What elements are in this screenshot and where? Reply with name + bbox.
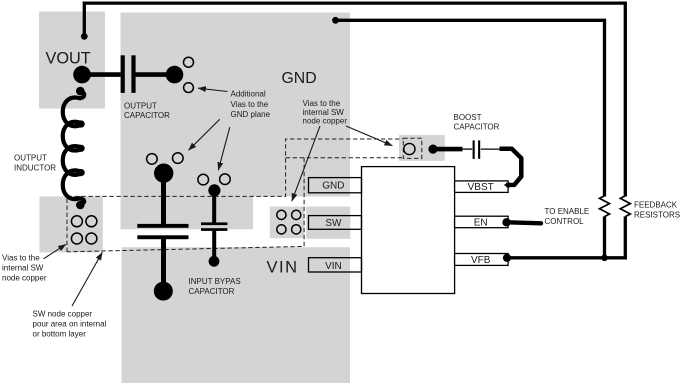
svg-text:or bottom layer: or bottom layer xyxy=(33,330,87,339)
svg-text:GND: GND xyxy=(322,180,344,191)
svg-text:CAPACITOR: CAPACITOR xyxy=(124,111,170,120)
svg-text:RESISTORS: RESISTORS xyxy=(634,211,680,220)
svg-text:node copper: node copper xyxy=(303,117,348,126)
svg-text:VBST: VBST xyxy=(468,182,494,193)
svg-text:SW: SW xyxy=(325,218,342,229)
svg-text:INPUT BYPAS: INPUT BYPAS xyxy=(189,277,241,286)
svg-text:CAPACITOR: CAPACITOR xyxy=(454,122,500,131)
svg-text:Additional: Additional xyxy=(231,90,266,99)
svg-text:VFB: VFB xyxy=(471,255,491,266)
svg-text:VOUT: VOUT xyxy=(46,50,91,68)
svg-text:pour area on internal: pour area on internal xyxy=(33,320,107,329)
svg-text:TO ENABLE: TO ENABLE xyxy=(545,207,590,216)
svg-text:Vias to the: Vias to the xyxy=(231,100,269,109)
svg-text:EN: EN xyxy=(474,217,488,228)
svg-text:FEEDBACK: FEEDBACK xyxy=(634,200,678,209)
svg-text:Vias to the: Vias to the xyxy=(2,253,40,262)
svg-text:INDUCTOR: INDUCTOR xyxy=(14,163,56,172)
svg-text:internal SW: internal SW xyxy=(303,108,345,117)
svg-text:VIN: VIN xyxy=(325,261,342,272)
svg-text:SW node copper: SW node copper xyxy=(33,310,93,319)
svg-text:node copper: node copper xyxy=(2,273,47,282)
svg-text:GND plane: GND plane xyxy=(231,110,271,119)
svg-text:OUTPUT: OUTPUT xyxy=(124,102,157,111)
svg-text:BOOST: BOOST xyxy=(454,113,482,122)
svg-text:OUTPUT: OUTPUT xyxy=(14,153,47,162)
svg-text:VIN: VIN xyxy=(267,259,298,277)
svg-text:internal SW: internal SW xyxy=(2,263,44,272)
svg-text:GND: GND xyxy=(282,70,317,87)
svg-text:Vias to the: Vias to the xyxy=(303,99,341,108)
svg-text:CONTROL: CONTROL xyxy=(545,217,585,226)
svg-text:CAPACITOR: CAPACITOR xyxy=(189,287,235,296)
